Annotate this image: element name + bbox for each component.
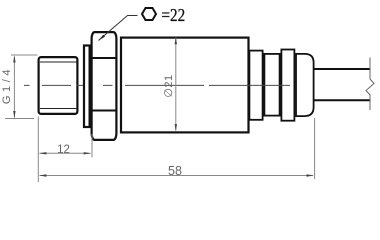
centerline <box>24 84 290 86</box>
nut lower face line <box>91 110 118 112</box>
svg-text:58: 58 <box>168 164 182 178</box>
dimension dia21: dimension line <box>175 38 177 131</box>
svg-text:12: 12 <box>57 144 70 156</box>
dimension 12: arrow left <box>39 152 46 154</box>
hexagon symbol (across flats) <box>142 8 156 20</box>
cable break symbol <box>366 58 374 111</box>
leader arrowhead <box>99 35 106 41</box>
gland rib B <box>281 50 294 121</box>
dimension G1/4: dimension line <box>13 57 15 118</box>
dimension G1/4: arrow down <box>13 111 15 118</box>
svg-text:=22: =22 <box>162 5 186 26</box>
washer / sealing collar <box>84 46 90 128</box>
svg-text:G1/4: G1/4 <box>1 66 13 104</box>
dimension 12: left extension line (shared with 58) <box>37 117 39 183</box>
cable bottom line <box>315 99 371 101</box>
dimension 58: dimension line <box>40 175 314 177</box>
main body cylinder <box>121 38 249 133</box>
dimension 58: right extension line <box>314 118 316 179</box>
cable top line <box>315 68 371 70</box>
dimension dia21: arrow up <box>175 37 177 44</box>
thread stub (G1/4 threaded end) <box>39 57 78 114</box>
dimension 12: arrow right <box>84 152 91 154</box>
nut upper face line <box>91 57 118 59</box>
svg-text:∅21: ∅21 <box>163 74 175 97</box>
dimension 12: right extension line <box>91 134 93 158</box>
dimension G1/4: bottom extension line <box>5 118 34 120</box>
dimension dia21: arrow down <box>175 124 177 131</box>
leader line to hex flat <box>99 16 138 41</box>
gland valley <box>264 54 279 116</box>
gland end cap <box>296 54 314 116</box>
dimension 12: dimension line <box>40 152 91 154</box>
dimension G1/4: top extension line <box>11 54 38 56</box>
dimension 58: arrow left <box>39 174 46 176</box>
gland rib A <box>249 51 262 120</box>
dimension 58: arrow right <box>307 174 314 176</box>
thread minor line bottom <box>40 108 77 110</box>
hex nut <box>92 32 117 140</box>
thread minor line top <box>40 61 77 63</box>
dimension G1/4: arrow up <box>13 55 15 62</box>
